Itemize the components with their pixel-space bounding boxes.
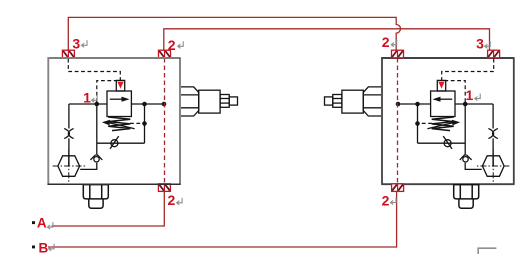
pilot from port3	[68, 59, 120, 81]
node at relief valve outlet	[142, 102, 147, 107]
right valve block = mirrored copy	[325, 50, 510, 208]
wire L3 to R2 with hop	[68, 17, 400, 50]
hex plug centerlines	[53, 149, 86, 182]
node at pilot sense branch	[142, 121, 147, 126]
wire relief output down	[144, 104, 146, 143]
port 3 box	[62, 50, 74, 58]
node 1 junction	[95, 102, 100, 107]
svg-text:A: A	[37, 215, 47, 230]
port 2 box top	[159, 50, 171, 58]
left block border	[48, 57, 181, 185]
wire left branch down from corner	[68, 104, 70, 166]
hex orifice plug	[58, 156, 80, 177]
svg-text:3: 3	[476, 36, 484, 52]
pilot from node1	[97, 81, 117, 102]
relief valve V1 spring	[108, 117, 130, 131]
relief valve V1 red setting triangle	[117, 82, 123, 89]
red dashed internal port2 passage	[164, 58, 166, 184]
svg-text:1: 1	[466, 87, 474, 103]
check valve CV2 ball and seat	[94, 157, 99, 162]
port 2 box bottom	[158, 184, 170, 192]
wire below CV2 to hexagon	[80, 163, 97, 170]
svg-text:2: 2	[382, 193, 390, 209]
svg-text:2: 2	[168, 37, 176, 53]
node on port 2 passage	[162, 102, 167, 107]
wire relief valve to port2 line	[131, 103, 164, 105]
pilot spring sense	[130, 122, 143, 124]
relief valve V1 spring adjustment arrow	[109, 123, 135, 129]
relief valve V1 pilot cap	[116, 80, 124, 91]
svg-text:B: B	[39, 240, 49, 254]
gray corner bottom right	[478, 248, 496, 254]
relief valve V1 flow arrow	[110, 98, 123, 100]
wire node1 down to check branch	[96, 104, 98, 156]
svg-text:2: 2	[168, 192, 176, 208]
wire check line horizontal	[97, 142, 145, 144]
wire A to left port2 bottom	[52, 191, 165, 226]
right block border	[381, 57, 514, 185]
cartridge fitting on block side	[181, 87, 238, 116]
bottom hex plug fitting	[83, 185, 108, 209]
bullet A	[32, 221, 35, 224]
wire B to right port2 bottom	[48, 191, 397, 247]
svg-text:2: 2	[382, 34, 390, 50]
svg-text:3: 3	[72, 35, 80, 51]
svg-text:1: 1	[83, 89, 91, 105]
wire L2 to R3	[164, 29, 490, 50]
wire into hexagon	[68, 156, 70, 166]
check valve CV1 ball	[111, 140, 118, 147]
relief valve V1 body	[107, 91, 131, 117]
wire main line port1 to relief valve	[69, 103, 107, 105]
bullet B	[32, 246, 35, 249]
pilot line dashes	[68, 59, 143, 124]
orifice/throttle symbol	[64, 128, 73, 138]
